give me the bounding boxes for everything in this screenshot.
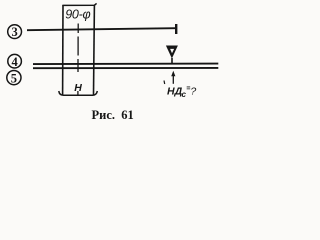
wire: lower line of double line 4/5 <box>33 67 218 69</box>
svg-text:3: 3 <box>11 25 17 39</box>
strip top cap line <box>62 3 96 5</box>
svg-text:5: 5 <box>11 71 17 85</box>
pointer arrow up to line <box>172 74 174 84</box>
svg-text:НД: НД <box>167 85 183 97</box>
wire: upper line of double line 4/5 <box>33 63 218 66</box>
svg-text:Рис. 61: Рис. 61 <box>92 108 134 122</box>
strip right vertical line <box>93 5 96 95</box>
accent tick above H of label <box>163 81 166 85</box>
axis center dash-dot line <box>77 24 79 96</box>
bottom bracket under strip <box>59 91 98 95</box>
svg-text:?: ? <box>190 85 196 97</box>
end tick of line 3 <box>175 24 177 34</box>
svg-text:90-φ: 90-φ <box>65 8 90 22</box>
label NDc=? <box>167 85 196 99</box>
node 4 (circled label) <box>8 54 22 68</box>
svg-text:4: 4 <box>11 55 18 69</box>
level mark stem <box>171 58 173 65</box>
strip left vertical line <box>62 5 64 95</box>
paper background <box>0 0 244 124</box>
node 5 (circled label) <box>7 71 21 86</box>
level mark triangle (inner white) <box>170 49 174 53</box>
wire: horizontal line of plane 3 <box>27 28 176 30</box>
node 3 (circled label) <box>8 25 22 40</box>
level mark triangle (outer) <box>166 46 178 59</box>
svg-text:Н: Н <box>74 82 82 94</box>
